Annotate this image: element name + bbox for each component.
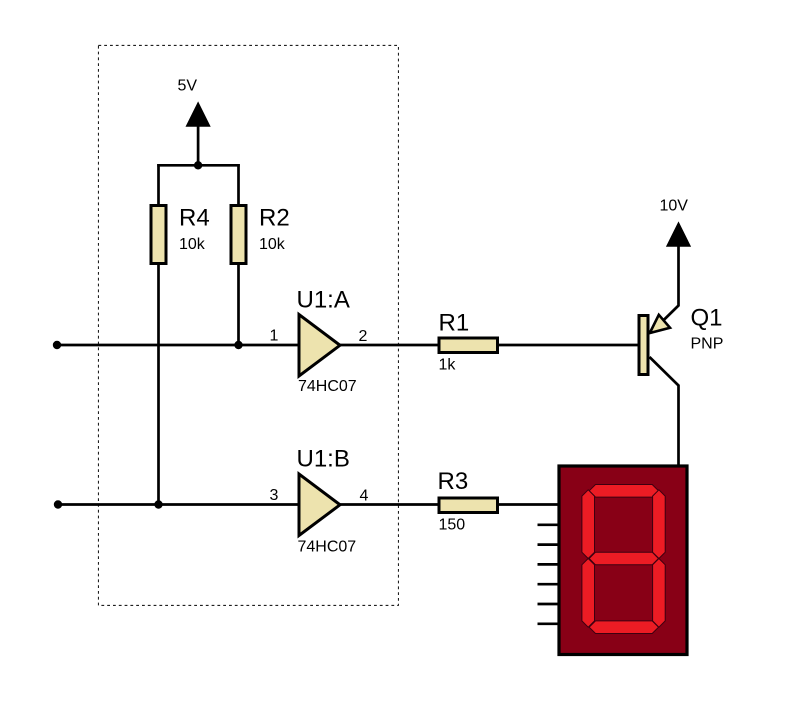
svg-text:R1: R1 (439, 310, 470, 337)
wire Q1 collector to display (650, 357, 679, 465)
display segment d (589, 621, 658, 634)
svg-text:Q1: Q1 (691, 305, 723, 332)
wire R1 to Q1 base (498, 344, 639, 347)
svg-text:2: 2 (359, 328, 368, 345)
resistor R4 (151, 206, 166, 264)
svg-text:1: 1 (270, 328, 279, 345)
node input terminal row 1 (53, 341, 61, 349)
display pin stub 2 (538, 523, 559, 526)
node junction R4 on row 2 (154, 500, 162, 508)
svg-text:74HC07: 74HC07 (298, 539, 357, 556)
svg-text:74HC07: 74HC07 (298, 378, 357, 395)
node input terminal row 2 (54, 500, 62, 508)
display pin stub 7 (538, 622, 559, 625)
display pin stub 6 (538, 603, 559, 606)
wire R3 to display pin (498, 503, 559, 506)
display pin stub 3 (538, 543, 559, 546)
power 5V arrow symbol (186, 103, 210, 127)
node junction R2 on row 1 (234, 341, 242, 349)
svg-text:U1:A: U1:A (297, 287, 350, 314)
wire top tee horizontal (157, 164, 240, 167)
svg-text:10k: 10k (259, 236, 286, 253)
resistor R3 (439, 498, 498, 513)
svg-text:U1:B: U1:B (297, 446, 350, 473)
wire R2 bottom leg (237, 264, 240, 345)
wire 5V stem (197, 126, 200, 165)
display segment b (653, 490, 666, 559)
svg-text:R4: R4 (179, 205, 210, 232)
buffer U1:B (299, 474, 340, 536)
wire row 2 input (58, 503, 299, 506)
wire R4 bottom leg (157, 264, 160, 505)
svg-text:10V: 10V (660, 198, 689, 215)
svg-text:R3: R3 (438, 468, 469, 495)
wire row 1 input (57, 344, 299, 347)
svg-text:3: 3 (270, 487, 279, 504)
buffer U1:A (299, 315, 340, 377)
resistor R1 (439, 338, 498, 353)
svg-text:4: 4 (360, 488, 369, 505)
power 10V arrow symbol (667, 223, 691, 247)
seven segment display body (559, 466, 687, 655)
display segment f (582, 490, 595, 559)
display pin stub 4 (538, 563, 559, 566)
display digit 8 segments (582, 485, 665, 634)
display segment g (589, 552, 658, 565)
display pin stub 5 (538, 583, 559, 586)
node junction at 5V tee (194, 161, 202, 169)
wire U1:A output to R1 (339, 344, 439, 347)
display segment e (582, 559, 595, 628)
wire R2 top leg (237, 164, 240, 205)
svg-text:10k: 10k (179, 236, 206, 253)
svg-text:PNP: PNP (691, 336, 724, 353)
svg-text:150: 150 (439, 517, 466, 534)
svg-text:R2: R2 (259, 205, 290, 232)
transistor Q1 (639, 315, 670, 375)
display segment c (653, 559, 666, 628)
wire U1:B output to R3 (339, 503, 439, 506)
svg-text:5V: 5V (178, 78, 198, 95)
resistor R2 (231, 206, 246, 264)
wire R4 top leg (157, 164, 160, 205)
display segment a (589, 485, 658, 498)
wire 10V stem to emitter (651, 246, 679, 333)
svg-text:1k: 1k (439, 357, 457, 374)
subcircuit dashed boundary box (98, 45, 398, 605)
